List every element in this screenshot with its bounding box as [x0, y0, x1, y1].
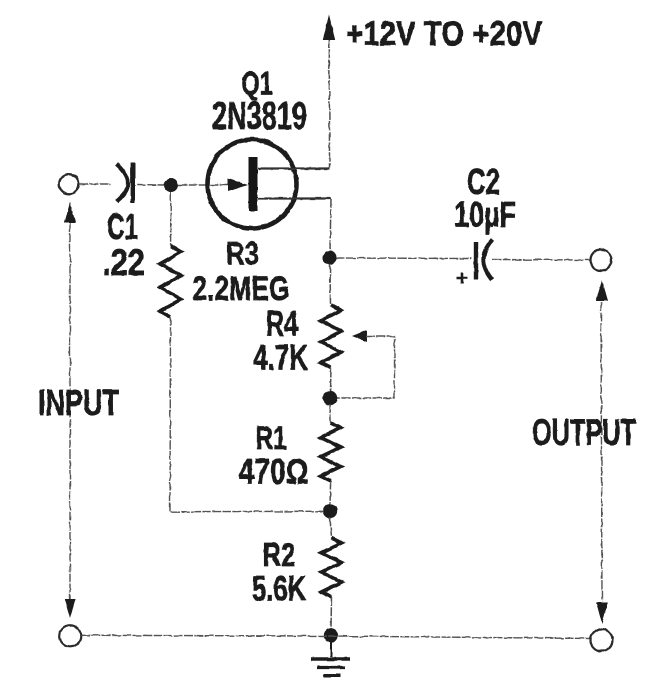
svg-text:.22: .22 [102, 242, 145, 283]
output arrow down [596, 602, 608, 624]
wire: input span line [69, 223, 71, 601]
wire: R1 bottom to node D [329, 481, 332, 505]
wire: left branch vertical (gate bias) [170, 192, 172, 246]
node D (R1 bottom junction dot) [323, 504, 337, 518]
node E (bottom rail junction dot) [324, 628, 338, 642]
node A (gate junction dot) [164, 178, 178, 192]
input arrow up [64, 202, 75, 223]
wire: output span line [601, 302, 602, 601]
svg-text:OUTPUT: OUTPUT [532, 412, 636, 453]
output arrow up [596, 280, 608, 301]
wire: R3 bottom to node D (L path) [170, 317, 323, 512]
svg-text:C1: C1 [107, 206, 138, 247]
power arrow +12V [323, 15, 335, 41]
terminal: output top [591, 250, 612, 271]
wire: drain to +V rail [328, 39, 330, 168]
terminal: input bottom [59, 625, 81, 647]
input arrow down [64, 599, 75, 619]
svg-text:+12V TO +20V: +12V TO +20V [346, 15, 542, 53]
wire: C2 to output terminal [492, 259, 590, 262]
transistor Q1 [208, 140, 332, 229]
terminal: output bottom [591, 629, 613, 651]
wire: node D to R2 [330, 517, 332, 538]
node B (source / C2 junction dot) [323, 251, 337, 265]
wire: input horizontal wire [79, 184, 164, 185]
svg-text:10µF: 10µF [454, 196, 516, 235]
capacitor C2 [457, 240, 493, 284]
wire: middle branch node B to R4 [329, 264, 332, 305]
capacitor C1 [117, 163, 133, 203]
wire: R4 bottom [330, 368, 333, 392]
svg-text:R3: R3 [226, 236, 259, 272]
svg-text:2N3819: 2N3819 [212, 95, 307, 138]
resistor R1 [321, 423, 341, 481]
svg-text:INPUT: INPUT [38, 382, 119, 423]
resistor R4 [321, 305, 341, 368]
wire: source down to node [330, 199, 331, 251]
wire: gate wire to Q1 [178, 184, 232, 186]
svg-text:R1: R1 [256, 420, 287, 456]
svg-text:5.6K: 5.6K [252, 570, 306, 609]
svg-text:470Ω: 470Ω [239, 453, 309, 492]
wire: node B to C2 [336, 257, 471, 260]
wire: bottom rail [81, 635, 590, 638]
wire: node C to R1 [329, 404, 332, 423]
resistor R3 [160, 246, 181, 317]
wire: wiper to bottom of R4 [337, 337, 395, 399]
terminal: input top [59, 174, 79, 194]
R4 wiper arrow [352, 330, 367, 342]
wire: R2 bottom to ground rail [330, 597, 333, 630]
svg-text:2.2MEG: 2.2MEG [193, 270, 290, 308]
node C (R4/R1 junction dot) [323, 391, 337, 405]
svg-text:4.7K: 4.7K [253, 339, 308, 378]
resistor R2 [322, 538, 342, 597]
svg-text:R2: R2 [263, 536, 296, 573]
ground [311, 642, 350, 676]
